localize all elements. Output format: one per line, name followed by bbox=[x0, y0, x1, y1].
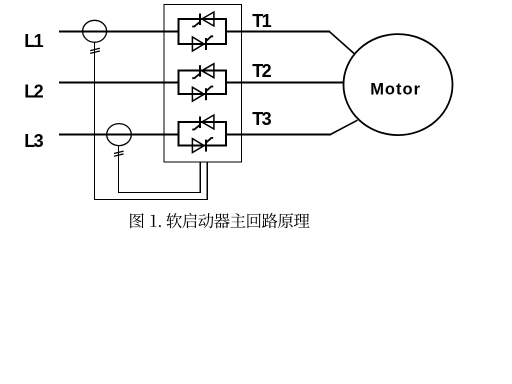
svg-text:T3: T3 bbox=[252, 109, 271, 129]
svg-text:L3: L3 bbox=[24, 131, 43, 151]
svg-text:Motor: Motor bbox=[370, 81, 421, 99]
svg-text:L1: L1 bbox=[24, 31, 43, 51]
svg-text:T2: T2 bbox=[252, 61, 271, 81]
svg-text:T1: T1 bbox=[252, 11, 271, 31]
svg-text:L2: L2 bbox=[24, 82, 43, 102]
